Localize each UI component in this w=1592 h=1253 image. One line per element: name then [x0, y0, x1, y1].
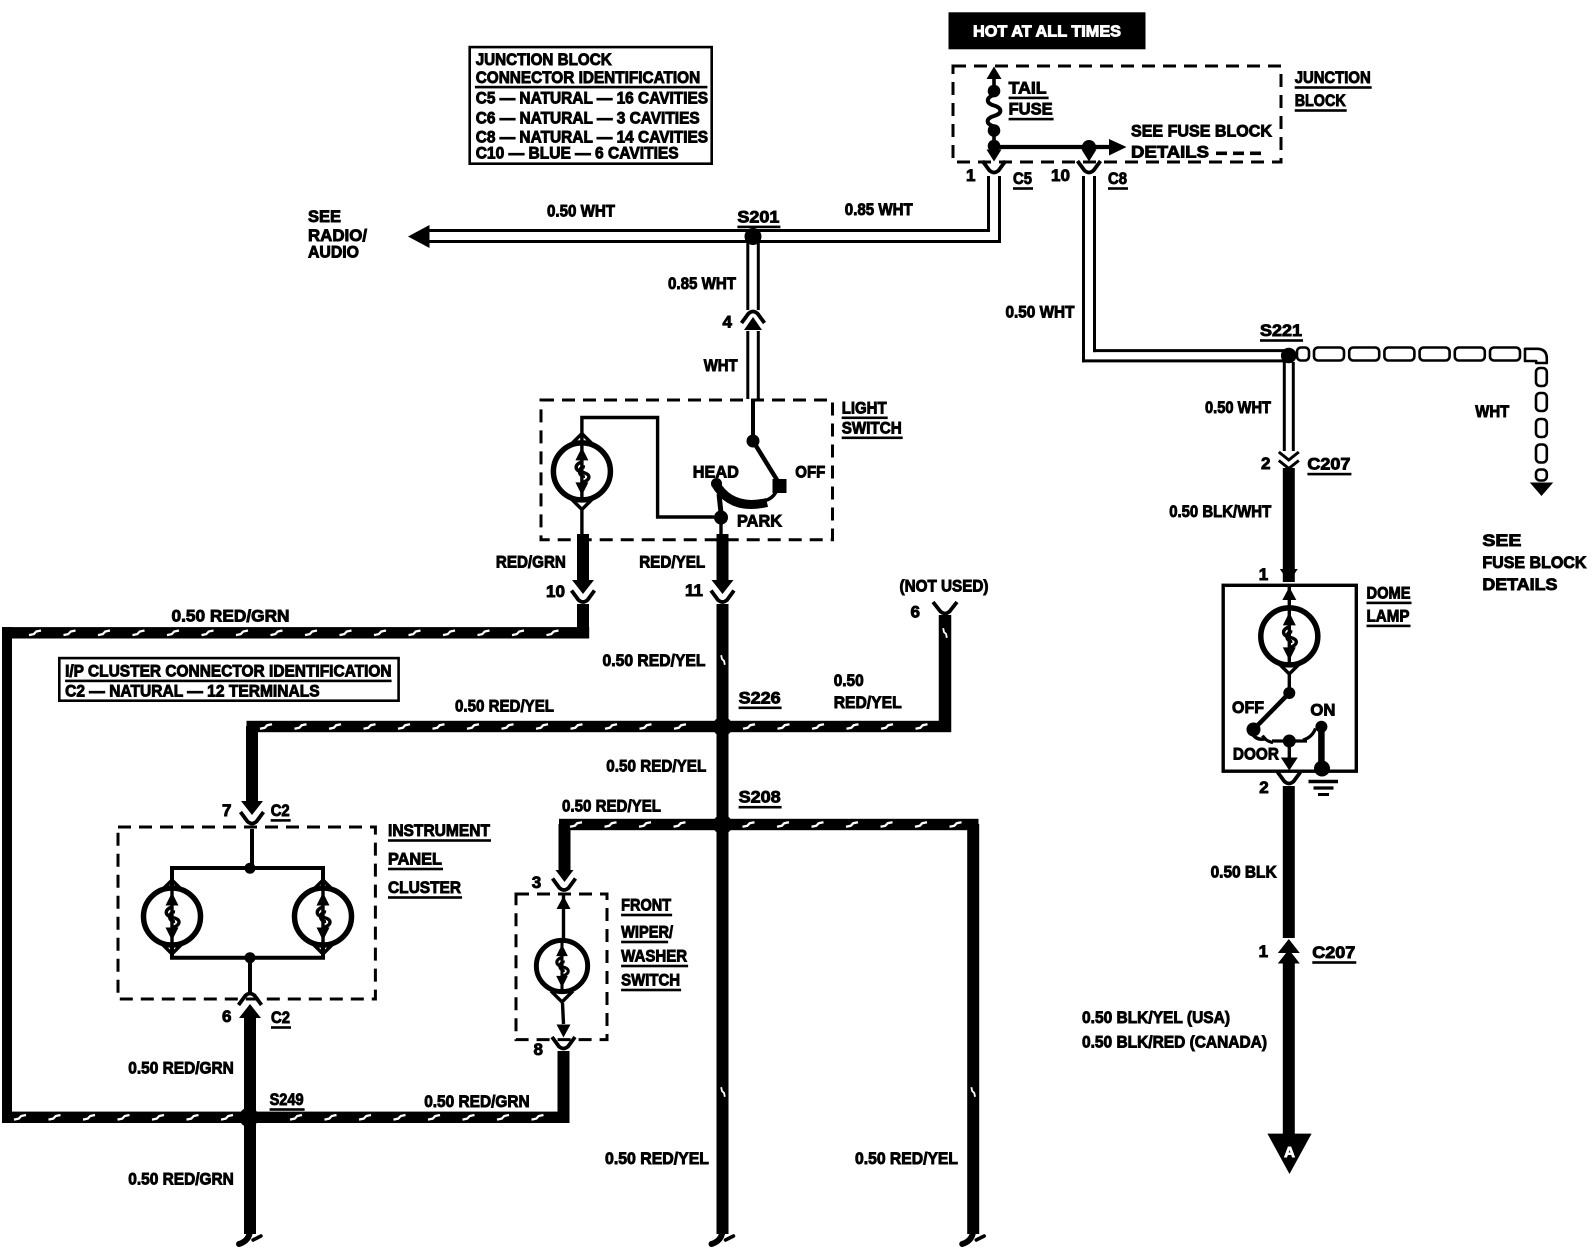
svg-text:10: 10 [1051, 166, 1070, 185]
svg-text:C5: C5 [1013, 169, 1032, 188]
svg-text:1: 1 [1259, 565, 1268, 584]
svg-text:INSTRUMENT: INSTRUMENT [388, 821, 491, 840]
svg-text:4: 4 [723, 313, 733, 332]
svg-text:DOME: DOME [1367, 583, 1411, 602]
svg-text:0.50 BLK/RED (CANADA): 0.50 BLK/RED (CANADA) [1082, 1033, 1267, 1052]
svg-text:OFF: OFF [1232, 698, 1264, 717]
svg-text:0.50 RED/YEL: 0.50 RED/YEL [855, 1149, 958, 1168]
svg-text:0.50 RED/GRN: 0.50 RED/GRN [172, 606, 290, 625]
svg-text:0.50 RED/YEL: 0.50 RED/YEL [606, 757, 706, 776]
svg-text:BLOCK: BLOCK [1295, 91, 1347, 110]
svg-text:JUNCTION: JUNCTION [1295, 68, 1371, 87]
svg-text:LAMP: LAMP [1367, 606, 1410, 625]
svg-text:WIPER/: WIPER/ [621, 923, 673, 942]
svg-text:C207: C207 [1307, 455, 1350, 474]
svg-text:0.50 RED/YEL: 0.50 RED/YEL [605, 1149, 709, 1168]
svg-text:C6 — NATURAL — 3 CAVITIES: C6 — NATURAL — 3 CAVITIES [476, 110, 700, 128]
svg-text:10: 10 [546, 582, 565, 601]
svg-text:DETAILS: DETAILS [1482, 575, 1557, 594]
svg-text:SEE: SEE [1482, 531, 1521, 550]
svg-text:SWITCH: SWITCH [842, 418, 902, 437]
svg-text:HOT AT ALL TIMES: HOT AT ALL TIMES [973, 24, 1121, 41]
svg-text:C5 — NATURAL — 16 CAVITIES: C5 — NATURAL — 16 CAVITIES [476, 90, 708, 108]
svg-text:SEE FUSE BLOCK: SEE FUSE BLOCK [1131, 122, 1273, 141]
svg-text:I/P CLUSTER CONNECTOR IDENTIFI: I/P CLUSTER CONNECTOR IDENTIFICATION [65, 663, 392, 681]
svg-text:0.50 RED/YEL: 0.50 RED/YEL [562, 797, 661, 816]
svg-text:C2 — NATURAL — 12 TERMINALS: C2 — NATURAL — 12 TERMINALS [65, 683, 320, 701]
svg-text:S201: S201 [737, 207, 779, 226]
svg-text:FUSE BLOCK: FUSE BLOCK [1482, 553, 1587, 572]
svg-text:3: 3 [532, 873, 541, 892]
svg-text:0.50 RED/GRN: 0.50 RED/GRN [128, 1170, 234, 1189]
svg-text:S226: S226 [739, 688, 781, 707]
svg-text:(NOT USED): (NOT USED) [900, 577, 989, 596]
svg-text:1: 1 [1259, 942, 1268, 961]
svg-text:C207: C207 [1312, 943, 1355, 962]
svg-text:PANEL: PANEL [388, 850, 442, 869]
svg-text:RED/GRN: RED/GRN [496, 552, 566, 571]
svg-text:8: 8 [534, 1040, 543, 1059]
svg-text:AUDIO: AUDIO [308, 243, 359, 262]
svg-text:C2: C2 [271, 1008, 290, 1027]
svg-text:0.50 RED/YEL: 0.50 RED/YEL [603, 651, 706, 670]
svg-text:HEAD: HEAD [693, 462, 739, 481]
svg-text:CLUSTER: CLUSTER [388, 878, 461, 897]
svg-text:0.50 RED/GRN: 0.50 RED/GRN [128, 1058, 234, 1077]
svg-text:FRONT: FRONT [621, 896, 672, 915]
svg-text:1: 1 [966, 166, 975, 185]
svg-text:JUNCTION BLOCK: JUNCTION BLOCK [476, 51, 612, 69]
svg-text:TAIL: TAIL [1009, 78, 1047, 97]
svg-text:C8: C8 [1108, 169, 1127, 188]
svg-text:C10 — BLUE — 6 CAVITIES: C10 — BLUE — 6 CAVITIES [476, 145, 679, 163]
svg-text:S208: S208 [739, 788, 781, 807]
svg-text:6: 6 [222, 1007, 231, 1026]
svg-text:LIGHT: LIGHT [842, 398, 888, 417]
svg-text:0.50: 0.50 [834, 671, 864, 690]
svg-text:WHT: WHT [1475, 402, 1510, 421]
svg-text:2: 2 [1261, 454, 1270, 473]
svg-text:0.50 BLK/YEL (USA): 0.50 BLK/YEL (USA) [1082, 1008, 1230, 1027]
svg-text:2: 2 [1259, 778, 1268, 797]
svg-text:FUSE: FUSE [1009, 100, 1053, 119]
svg-text:0.50 WHT: 0.50 WHT [1006, 303, 1076, 322]
svg-text:0.50 RED/GRN: 0.50 RED/GRN [424, 1092, 530, 1111]
svg-text:S249: S249 [270, 1090, 304, 1109]
svg-text:PARK: PARK [737, 512, 783, 531]
svg-text:0.50 WHT: 0.50 WHT [1205, 398, 1272, 417]
svg-text:SEE: SEE [308, 207, 341, 226]
svg-text:DOOR: DOOR [1233, 745, 1279, 764]
svg-text:OFF: OFF [795, 462, 825, 481]
svg-text:ON: ON [1310, 701, 1335, 720]
svg-text:0.50 RED/YEL: 0.50 RED/YEL [455, 697, 554, 716]
svg-text:DETAILS: DETAILS [1131, 143, 1209, 162]
svg-text:0.50 BLK/WHT: 0.50 BLK/WHT [1169, 502, 1272, 521]
svg-text:0.50 BLK: 0.50 BLK [1211, 863, 1278, 882]
svg-text:SWITCH: SWITCH [621, 971, 680, 990]
svg-text:RED/YEL: RED/YEL [639, 552, 705, 571]
svg-text:RED/YEL: RED/YEL [834, 693, 902, 712]
svg-text:WASHER: WASHER [621, 947, 687, 966]
svg-text:0.50 WHT: 0.50 WHT [547, 202, 616, 221]
svg-text:A: A [1284, 1144, 1295, 1161]
svg-text:6: 6 [911, 603, 920, 622]
svg-text:WHT: WHT [704, 356, 739, 375]
svg-text:S221: S221 [1260, 321, 1302, 340]
svg-text:C2: C2 [271, 801, 290, 820]
svg-text:0.85 WHT: 0.85 WHT [845, 200, 914, 219]
svg-text:11: 11 [685, 581, 703, 600]
svg-text:7: 7 [222, 801, 231, 820]
svg-text:0.85 WHT: 0.85 WHT [668, 274, 737, 293]
svg-text:CONNECTOR IDENTIFICATION: CONNECTOR IDENTIFICATION [476, 69, 701, 87]
